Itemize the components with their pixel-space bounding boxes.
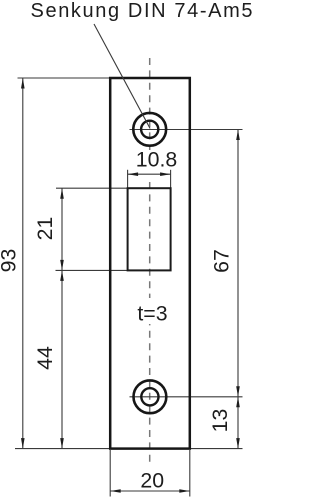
dimension 20 line [110, 489, 190, 493]
dimension 10.8 line [128, 172, 171, 176]
top hole horizontal centerline / extension line [130, 129, 243, 131]
dimension 20 label [140, 469, 164, 493]
dimension 93 line [21, 78, 25, 449]
dimension 21 line [60, 188, 64, 270]
title text Senkung DIN 74-Am5 [31, 0, 253, 22]
extension line bottom edge right (for 13) [191, 448, 243, 450]
svg-text:20: 20 [140, 469, 164, 493]
svg-text:13: 13 [208, 409, 232, 433]
svg-text:Senkung DIN 74-Am5: Senkung DIN 74-Am5 [31, 0, 253, 22]
dimension 44 line [60, 270, 64, 448]
dimension 67 label [210, 249, 234, 273]
top hole outer circle [133, 113, 166, 146]
svg-text:93: 93 [0, 249, 21, 273]
dimension 93 label [0, 249, 21, 273]
dimension 21 label [33, 217, 57, 241]
bottom hole inner circle [141, 388, 158, 405]
plate outline [110, 78, 190, 449]
thickness note t=3 [133, 298, 172, 326]
leader line from title to top hole [94, 24, 150, 129]
extension line slot top left (for 21) [56, 187, 128, 189]
extension lines plate bottom corners down (for 20) [110, 450, 190, 497]
top hole inner circle [141, 121, 158, 138]
extension line top edge left (for 93) [18, 77, 111, 79]
svg-text:t=3: t=3 [137, 302, 167, 326]
svg-text:67: 67 [210, 249, 234, 273]
svg-text:21: 21 [33, 217, 57, 241]
extension line slot bottom left (for 21/44) [56, 269, 128, 271]
dimension 13 label [208, 409, 232, 433]
vertical centerline [146, 58, 155, 462]
svg-text:44: 44 [33, 346, 57, 370]
extension lines slot sides up (for 10.8) [128, 170, 171, 188]
bottom hole outer circle [134, 380, 167, 413]
dimension 13 line [236, 397, 240, 449]
bottom hole horizontal centerline / extension line [130, 396, 243, 398]
dimension 67 line [236, 130, 240, 397]
extension line bottom edge left (for 93/44) [15, 448, 110, 450]
dimension 10.8 label [134, 148, 180, 172]
svg-text:10.8: 10.8 [136, 148, 177, 172]
slot cutout [128, 188, 171, 270]
dimension 44 label [33, 346, 57, 370]
